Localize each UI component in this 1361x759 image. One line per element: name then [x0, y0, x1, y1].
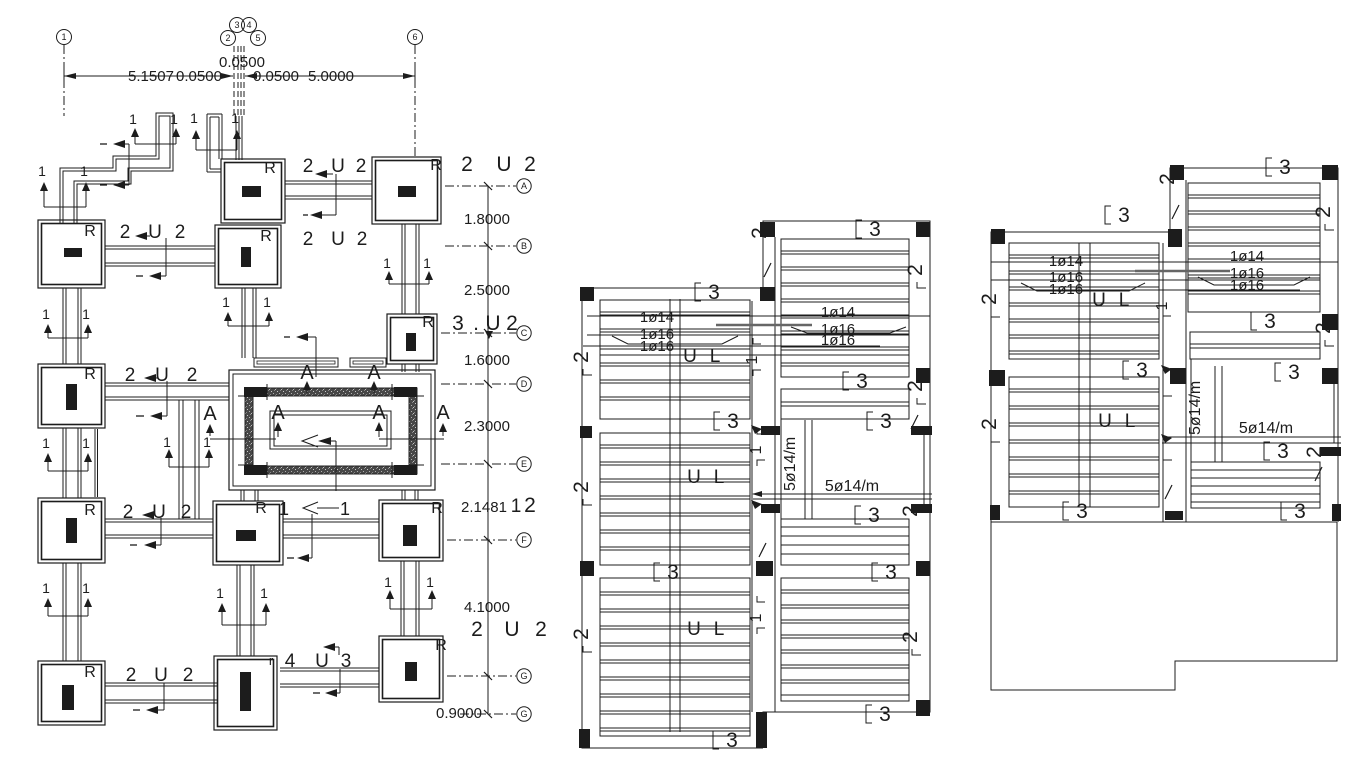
footing G-mid — [214, 656, 277, 730]
svg-text:1: 1 — [263, 294, 271, 310]
svg-text:1: 1 — [82, 306, 90, 322]
svg-text:3: 3 — [868, 504, 880, 527]
right panel left 1 — [1009, 243, 1159, 359]
svg-text:3: 3 — [1118, 204, 1130, 227]
svg-text:4: 4 — [246, 20, 251, 30]
wall line D-F — [94, 429, 96, 497]
right bracket3 bottom right — [1281, 502, 1287, 520]
svg-text:2: 2 — [126, 665, 137, 686]
right corridor arrowheads — [1161, 365, 1172, 374]
svg-text:U: U — [1092, 290, 1106, 311]
svg-text:1: 1 — [80, 163, 88, 179]
svg-text:5ø14/m: 5ø14/m — [825, 478, 879, 495]
mid panel right 3 — [781, 578, 909, 701]
beam mid vertical D-F — [178, 400, 180, 519]
mid column blocks — [760, 222, 775, 237]
footing D-left — [38, 364, 105, 428]
right panel vertical bars — [1078, 243, 1080, 507]
svg-text:1.6000: 1.6000 — [464, 352, 510, 369]
svg-text:2.3000: 2.3000 — [464, 418, 510, 435]
svg-text:1: 1 — [42, 580, 50, 596]
svg-text:2: 2 — [978, 293, 1001, 305]
svg-text:4: 4 — [285, 651, 296, 672]
beam F-mid down to G-mid — [236, 565, 238, 656]
svg-text:2: 2 — [506, 312, 518, 335]
svg-text:1ø14: 1ø14 — [1049, 253, 1083, 270]
svg-text:2: 2 — [123, 502, 134, 523]
mid 5ø14 bay vertical bars — [804, 420, 806, 519]
beam row F left — [105, 518, 213, 520]
core outer boundary — [229, 370, 435, 490]
mid dim line 5ø14 — [753, 493, 932, 495]
right panel right small — [1190, 332, 1320, 359]
grid line D dashdot — [441, 383, 516, 385]
mid panel left 2 — [600, 433, 750, 565]
mid bracket3 bottom left — [713, 731, 719, 749]
right bracket3 top right — [1266, 158, 1272, 176]
svg-text:D: D — [521, 379, 528, 389]
svg-text:1ø16: 1ø16 — [1049, 281, 1083, 298]
svg-text:2: 2 — [356, 156, 367, 177]
svg-text:3: 3 — [727, 410, 739, 433]
svg-text:1ø16: 1ø16 — [640, 338, 674, 355]
svg-text:1: 1 — [203, 434, 211, 450]
svg-text:L: L — [710, 346, 721, 367]
beam C-right down to core — [401, 364, 403, 372]
grid line 1 dashdot — [63, 45, 65, 116]
zigzag beam top-left — [60, 113, 173, 223]
grid bubble F — [517, 533, 531, 547]
svg-text:U: U — [331, 156, 345, 177]
svg-text:2: 2 — [899, 631, 922, 643]
right panel right 2 — [1191, 462, 1320, 508]
svg-text:R: R — [255, 500, 267, 517]
footing F-right — [379, 500, 443, 561]
right bracket3 5ø14 row — [1264, 442, 1270, 460]
footing A-right — [372, 157, 441, 224]
svg-text:1: 1 — [511, 496, 522, 517]
svg-text:3: 3 — [1136, 359, 1148, 382]
section line A-A right — [379, 438, 444, 440]
svg-text:r: r — [269, 653, 274, 668]
footing F-left — [38, 498, 105, 563]
svg-text:0.0500: 0.0500 — [253, 68, 299, 85]
core center pointer — [302, 435, 318, 447]
beam B-mid down to core bars — [241, 288, 243, 358]
svg-text:1: 1 — [82, 435, 90, 451]
svg-text:R: R — [264, 160, 276, 177]
svg-text:3: 3 — [1279, 156, 1291, 179]
grid line G dashdot — [447, 675, 516, 677]
svg-text:C: C — [521, 328, 528, 338]
svg-text:2: 2 — [524, 494, 536, 517]
right bracket3 bottom left — [1063, 502, 1069, 520]
right bent bars right — [1198, 277, 1310, 285]
right bracket3 mid right — [1251, 312, 1257, 330]
beam col1 F-G — [62, 563, 64, 661]
beam row G right — [280, 667, 379, 669]
grid bubble E — [517, 457, 531, 471]
right long top bars — [991, 261, 1338, 263]
svg-text:U: U — [1098, 411, 1112, 432]
svg-text:G: G — [520, 709, 527, 719]
ledge bar above core left — [254, 358, 338, 367]
svg-text:3: 3 — [880, 410, 892, 433]
core hatched ring — [245, 388, 417, 474]
svg-text:2: 2 — [524, 153, 536, 176]
svg-text:U: U — [687, 619, 701, 640]
svg-text:3: 3 — [1076, 500, 1088, 523]
beam row G left — [105, 682, 218, 684]
svg-text:A: A — [372, 402, 386, 424]
svg-text:1: 1 — [129, 111, 137, 127]
beam col1 B-D — [62, 288, 64, 364]
svg-text:1: 1 — [38, 163, 46, 179]
svg-text:2: 2 — [461, 153, 473, 176]
mid bent bars right — [791, 327, 906, 333]
svg-text:2: 2 — [570, 481, 593, 493]
grid bubble 1 — [57, 30, 72, 45]
svg-text:2.5000: 2.5000 — [464, 282, 510, 299]
footing B-mid — [215, 225, 281, 288]
svg-text:U: U — [154, 665, 168, 686]
right bay side lines — [1190, 359, 1192, 462]
mid bracket3 left 3 — [654, 563, 660, 581]
right corridor lines — [1162, 243, 1164, 522]
svg-text:U: U — [148, 222, 162, 243]
svg-text:.: . — [473, 312, 479, 335]
svg-text:1: 1 — [1154, 301, 1171, 310]
svg-text:1ø14: 1ø14 — [1230, 248, 1264, 265]
svg-text:R: R — [430, 157, 442, 174]
beam core to F-mid — [240, 490, 242, 501]
grid line G dashdot — [460, 713, 516, 715]
svg-text:2: 2 — [120, 222, 131, 243]
beam col1 D-F — [62, 428, 64, 498]
svg-text:2: 2 — [1312, 206, 1335, 218]
beam A-right down to C-right — [401, 224, 403, 314]
svg-text:2: 2 — [535, 618, 547, 641]
svg-text:1: 1 — [423, 255, 431, 271]
mid panel right 1 — [781, 239, 909, 377]
core inner rectangles — [270, 411, 391, 449]
svg-text:1: 1 — [82, 580, 90, 596]
svg-text:0.0500: 0.0500 — [176, 68, 222, 85]
mid panel vertical bars — [669, 299, 671, 732]
right bracket3 top left — [1105, 206, 1111, 224]
right bent bars left — [1021, 283, 1145, 291]
svg-text:A: A — [203, 403, 217, 425]
dashed arrow above core — [284, 336, 290, 338]
svg-text:1ø16: 1ø16 — [821, 332, 855, 349]
right panel right 1 — [1188, 183, 1320, 312]
grid bubble A — [517, 179, 531, 193]
core corner blocks — [244, 387, 267, 397]
svg-text:1ø14: 1ø14 — [821, 304, 855, 321]
mid bay side lines — [780, 418, 782, 519]
mid corridor arrowheads — [751, 425, 762, 434]
svg-text:A: A — [300, 362, 314, 384]
mid bent bars left — [612, 336, 738, 344]
svg-text:5.0000: 5.0000 — [308, 68, 354, 85]
right bottom L outline — [991, 522, 1337, 690]
beam F-right down to G-right — [400, 561, 402, 636]
mid bracket3 bottom right — [866, 705, 872, 723]
grid bubble D — [517, 377, 531, 391]
svg-text:2: 2 — [303, 156, 314, 177]
right 5ø14 bay vertical bars — [1214, 366, 1216, 462]
svg-text:1: 1 — [260, 585, 268, 601]
grid line 6 dashdot — [414, 45, 416, 157]
right dimension line — [487, 186, 489, 714]
svg-text:5: 5 — [255, 33, 260, 43]
svg-text:3: 3 — [708, 281, 720, 304]
svg-text:0.9000: 0.9000 — [436, 705, 482, 722]
svg-text:R: R — [84, 366, 96, 383]
footing B-left — [38, 220, 105, 288]
mid panel right small — [781, 389, 909, 419]
svg-text:U: U — [496, 153, 511, 176]
svg-text:1: 1 — [190, 110, 198, 126]
svg-text:3: 3 — [452, 312, 464, 335]
svg-text:U: U — [331, 229, 345, 250]
svg-text:G: G — [520, 671, 527, 681]
beam row F right — [283, 518, 379, 520]
svg-text:R: R — [431, 500, 443, 517]
grid line B dashdot — [445, 245, 516, 247]
grid bubble G — [517, 669, 531, 683]
footing G-left — [38, 661, 105, 725]
svg-text:1: 1 — [744, 355, 761, 364]
svg-text:2: 2 — [183, 665, 194, 686]
svg-text:1ø16: 1ø16 — [1230, 277, 1264, 294]
beam core to F-right — [401, 490, 403, 500]
mid bracket3 left 2 — [714, 412, 720, 430]
grid bubble B — [517, 239, 531, 253]
svg-text:2: 2 — [357, 229, 368, 250]
svg-text:L: L — [1119, 290, 1130, 311]
section line A-A left — [210, 438, 276, 440]
svg-text:5ø14/m: 5ø14/m — [1187, 381, 1204, 435]
svg-text:2: 2 — [471, 618, 483, 641]
svg-text:2: 2 — [570, 628, 593, 640]
svg-text:1: 1 — [231, 110, 239, 126]
mid bracket3 5ø14 row — [855, 506, 861, 524]
mid panel left 3 — [600, 578, 750, 736]
grid line F dashdot — [447, 539, 516, 541]
beam row D left — [105, 382, 229, 384]
svg-text:3: 3 — [885, 561, 897, 584]
dashed section arrows at zigzag — [100, 143, 107, 145]
svg-text:F: F — [521, 535, 527, 545]
svg-text:R: R — [435, 637, 447, 654]
beam row B left — [105, 245, 215, 247]
svg-text:2: 2 — [978, 418, 1001, 430]
mid panel right 2 — [781, 519, 909, 565]
mid bracket3 mid right — [843, 372, 849, 390]
svg-text:1: 1 — [748, 613, 765, 622]
svg-text:3: 3 — [1288, 361, 1300, 384]
svg-text:2.1481: 2.1481 — [461, 499, 507, 516]
svg-text:5.1507: 5.1507 — [128, 68, 174, 85]
svg-text:3: 3 — [879, 703, 891, 726]
footing G-right — [379, 636, 443, 702]
svg-text:1: 1 — [279, 499, 289, 519]
svg-text:1.8000: 1.8000 — [464, 211, 510, 228]
svg-text:1: 1 — [222, 294, 230, 310]
mid bracket3 right 3 — [872, 563, 878, 581]
svg-text:3: 3 — [1294, 500, 1306, 523]
svg-text:2: 2 — [303, 229, 314, 250]
top dimension line — [64, 75, 233, 77]
grid bubble C — [517, 326, 531, 340]
mid outer boundary — [582, 288, 763, 748]
mid bracket3 top left — [695, 283, 701, 301]
svg-text:2: 2 — [175, 222, 186, 243]
grid line C dashdot — [441, 332, 516, 334]
svg-text:3: 3 — [1264, 310, 1276, 333]
svg-text:3: 3 — [234, 20, 239, 30]
svg-text:1: 1 — [384, 574, 392, 590]
right dim line 5ø14 — [1162, 436, 1341, 438]
svg-text:3: 3 — [341, 651, 352, 672]
right column blocks — [1170, 165, 1184, 180]
grid line E dashdot — [441, 463, 516, 465]
svg-text:U: U — [315, 651, 329, 672]
svg-text:A: A — [271, 402, 285, 424]
footing A-mid — [221, 159, 285, 223]
svg-text:1: 1 — [383, 255, 391, 271]
svg-text:R: R — [84, 223, 96, 240]
svg-text:3: 3 — [856, 370, 868, 393]
svg-text:1: 1 — [163, 434, 171, 450]
svg-text:1: 1 — [426, 574, 434, 590]
right bracket3 right row — [1275, 363, 1281, 381]
right outer boundary — [991, 232, 1170, 522]
svg-text:2: 2 — [570, 351, 593, 363]
svg-text:R: R — [422, 314, 434, 331]
svg-text:5ø14/m: 5ø14/m — [782, 437, 799, 491]
svg-text:1: 1 — [340, 499, 350, 519]
ledge bar above core right — [350, 358, 386, 367]
svg-text:L: L — [714, 467, 725, 488]
svg-text:6: 6 — [412, 32, 417, 42]
mid bracket3 right 2 — [867, 412, 873, 430]
svg-text:5ø14/m: 5ø14/m — [1239, 420, 1293, 437]
right panel left 2 — [1009, 377, 1159, 507]
svg-text:L: L — [1125, 411, 1136, 432]
beam row A mid-right — [285, 180, 372, 182]
svg-text:1: 1 — [216, 585, 224, 601]
svg-text:1: 1 — [61, 32, 66, 42]
grid bubble G — [517, 707, 531, 721]
mid corridor lines — [751, 301, 753, 712]
svg-text:3: 3 — [726, 729, 738, 752]
svg-text:2: 2 — [125, 365, 136, 386]
grid bubble 6 — [408, 30, 423, 45]
svg-text:2: 2 — [225, 33, 230, 43]
core ticks — [266, 384, 268, 400]
svg-text:U: U — [152, 502, 166, 523]
mid bracket3 top right — [856, 220, 862, 238]
grid bubbles 2-5 — [221, 31, 236, 46]
svg-text:4.1000: 4.1000 — [464, 599, 510, 616]
svg-text:E: E — [521, 459, 527, 469]
svg-text:1: 1 — [42, 306, 50, 322]
svg-text:1: 1 — [170, 111, 178, 127]
svg-text:B: B — [521, 241, 527, 251]
svg-text:U: U — [687, 467, 701, 488]
svg-text:2: 2 — [187, 365, 198, 386]
svg-text:1: 1 — [42, 435, 50, 451]
svg-text:2: 2 — [181, 502, 192, 523]
svg-text:1ø14: 1ø14 — [640, 309, 674, 326]
footing C-right — [387, 314, 437, 364]
svg-text:3: 3 — [869, 218, 881, 241]
mid long top bars — [587, 315, 930, 317]
svg-text:A: A — [367, 362, 381, 384]
svg-text:U: U — [504, 618, 519, 641]
svg-text:3: 3 — [667, 561, 679, 584]
svg-text:A: A — [521, 181, 527, 191]
right slashes — [1172, 205, 1179, 219]
svg-text:U: U — [683, 346, 697, 367]
right bracket3 left 2 — [1123, 361, 1129, 379]
mid panel left 1 — [600, 300, 750, 419]
svg-text:R: R — [260, 228, 272, 245]
stub beam above A-mid — [206, 114, 208, 172]
svg-text:2: 2 — [904, 264, 927, 276]
grid lines 2-5 dashdot cluster — [233, 46, 235, 115]
grid line A dashdot — [445, 185, 516, 187]
svg-text:R: R — [84, 664, 96, 681]
svg-text:A: A — [436, 402, 450, 424]
svg-text:R: R — [84, 502, 96, 519]
mid slashes — [764, 263, 771, 277]
footing F-mid — [213, 501, 283, 565]
svg-text:1: 1 — [748, 445, 765, 454]
svg-text:L: L — [714, 619, 725, 640]
